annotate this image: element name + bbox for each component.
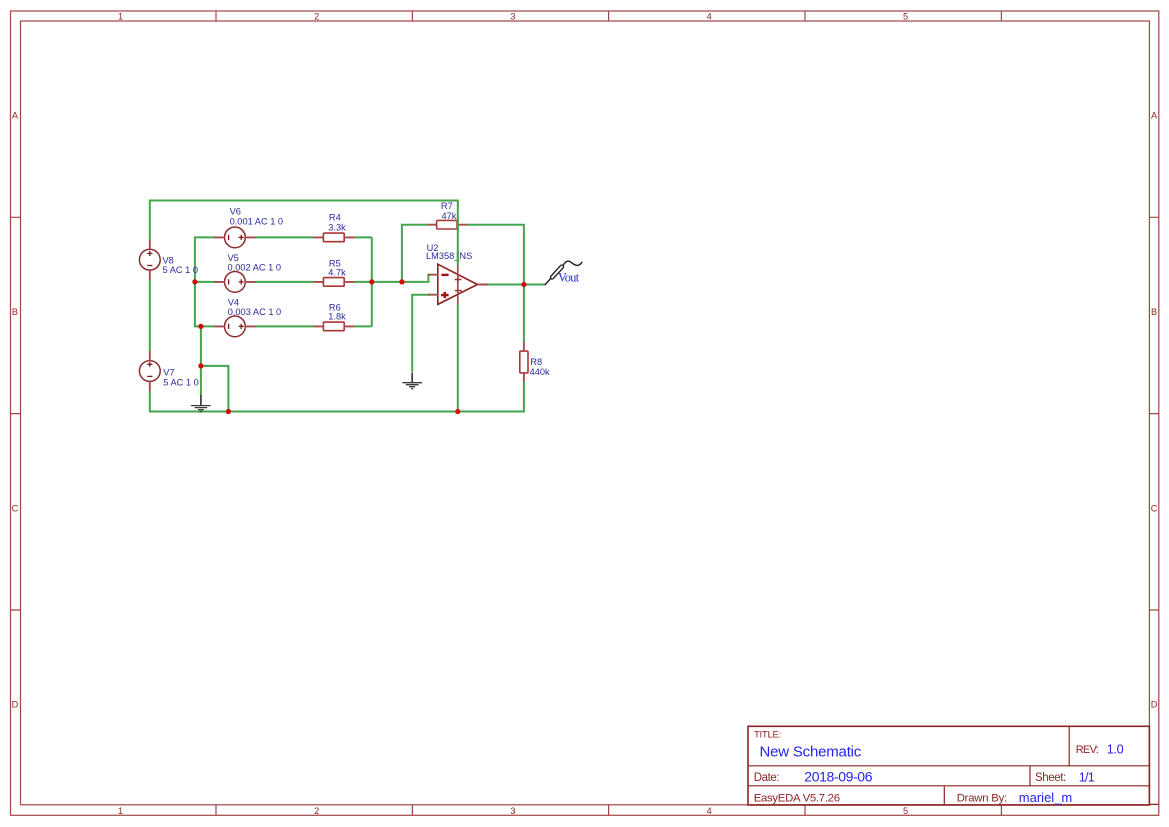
svg-text:4.7k: 4.7k bbox=[328, 268, 346, 278]
svg-text:New Schematic: New Schematic bbox=[760, 743, 862, 760]
svg-text:A: A bbox=[12, 111, 19, 121]
svg-text:V4: V4 bbox=[228, 297, 239, 307]
svg-text:D: D bbox=[1151, 699, 1158, 709]
svg-text:C: C bbox=[12, 504, 19, 514]
svg-text:V5: V5 bbox=[228, 253, 239, 263]
svg-text:R8: R8 bbox=[530, 357, 542, 367]
svg-text:47k: 47k bbox=[442, 211, 457, 221]
svg-text:4: 4 bbox=[707, 12, 712, 22]
svg-text:A: A bbox=[1151, 111, 1158, 121]
svg-text:Vout: Vout bbox=[558, 270, 580, 284]
svg-text:TITLE:: TITLE: bbox=[754, 729, 781, 740]
svg-text:2: 2 bbox=[314, 12, 319, 22]
svg-text:3.3k: 3.3k bbox=[328, 222, 346, 232]
svg-text:REV:: REV: bbox=[1076, 744, 1099, 756]
svg-text:1/1: 1/1 bbox=[1079, 771, 1095, 785]
svg-text:Sheet:: Sheet: bbox=[1035, 772, 1066, 784]
svg-text:V6: V6 bbox=[230, 206, 241, 216]
svg-text:5: 5 bbox=[903, 806, 908, 816]
svg-text:2: 2 bbox=[314, 806, 319, 816]
svg-text:3: 3 bbox=[510, 806, 515, 816]
svg-text:1: 1 bbox=[118, 806, 123, 816]
svg-text:LM358_NS: LM358_NS bbox=[426, 251, 472, 261]
svg-text:5: 5 bbox=[903, 12, 908, 22]
svg-text:1.0: 1.0 bbox=[1107, 743, 1124, 757]
svg-text:5 AC 1 0: 5 AC 1 0 bbox=[163, 377, 198, 387]
svg-text:5 AC 1 0: 5 AC 1 0 bbox=[163, 265, 198, 275]
svg-text:R4: R4 bbox=[329, 213, 341, 223]
svg-text:EasyEDA V5.7.26: EasyEDA V5.7.26 bbox=[754, 792, 840, 804]
svg-text:B: B bbox=[1151, 307, 1157, 317]
svg-text:1: 1 bbox=[118, 12, 123, 22]
svg-text:0.002 AC 1 0: 0.002 AC 1 0 bbox=[228, 263, 282, 273]
svg-text:0.003 AC 1 0: 0.003 AC 1 0 bbox=[228, 307, 282, 317]
svg-text:4: 4 bbox=[707, 806, 712, 816]
svg-text:440k: 440k bbox=[530, 367, 550, 377]
svg-text:B: B bbox=[12, 307, 18, 317]
svg-text:mariel_m: mariel_m bbox=[1019, 790, 1072, 805]
svg-text:1.8k: 1.8k bbox=[328, 312, 346, 322]
svg-text:Drawn By:: Drawn By: bbox=[957, 792, 1007, 804]
svg-text:3: 3 bbox=[510, 12, 515, 22]
svg-text:D: D bbox=[12, 699, 19, 709]
svg-text:0.001 AC 1 0: 0.001 AC 1 0 bbox=[230, 216, 284, 226]
svg-text:C: C bbox=[1151, 504, 1158, 514]
svg-text:2018-09-06: 2018-09-06 bbox=[804, 768, 872, 784]
svg-text:V7: V7 bbox=[163, 367, 174, 377]
svg-text:V8: V8 bbox=[163, 255, 174, 265]
svg-text:Date:: Date: bbox=[754, 772, 780, 784]
svg-text:R7: R7 bbox=[441, 201, 453, 211]
